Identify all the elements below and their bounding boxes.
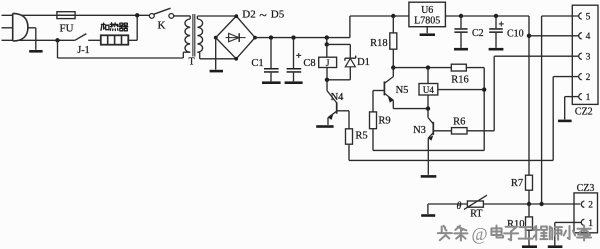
svg-text:U4: U4 bbox=[423, 85, 434, 95]
node: U4 / N5 / N3 dot bbox=[426, 106, 430, 110]
transformer T core bbox=[192, 14, 194, 57]
node: N4 collector dot bbox=[325, 78, 329, 82]
wire: CZ2 pin 1 to ground bbox=[565, 96, 579, 98]
watermark: toutiao author text bbox=[438, 226, 452, 240]
svg-text:T: T bbox=[188, 57, 194, 68]
svg-text:1: 1 bbox=[586, 93, 591, 103]
transistor N5 bbox=[392, 68, 394, 77]
wire: K to transformer primary top bbox=[174, 15, 191, 17]
svg-text:U6: U6 bbox=[421, 5, 433, 16]
wire: CZ2 pin 2 line and down leg to R5 rail bbox=[553, 76, 578, 78]
resistor R7 bbox=[526, 175, 533, 190]
capacitor C10 electrolytic bbox=[494, 14, 498, 18]
svg-text:D2: D2 bbox=[242, 9, 255, 21]
zener diode D1 bbox=[349, 44, 351, 58]
capacitor C1 bbox=[269, 35, 273, 39]
transformer T primary winding bbox=[185, 19, 190, 52]
wire: U4 right pin to feedback node bbox=[438, 89, 484, 91]
svg-text:D1: D1 bbox=[357, 57, 370, 68]
wire: N5 emitter to U4 bottom node bbox=[393, 108, 428, 110]
capacitor C8 electrolytic bbox=[291, 35, 295, 39]
wire: DC+ rail from bridge to corner bbox=[255, 37, 350, 39]
svg-text:@: @ bbox=[471, 224, 487, 244]
transistor N4 bbox=[326, 80, 328, 91]
node: R18 / N5 collector dot bbox=[391, 65, 395, 69]
ground: N4 emitter bbox=[316, 125, 333, 128]
wire: +5V rail from U6 to corner bbox=[445, 15, 529, 17]
svg-text:θ: θ bbox=[457, 201, 462, 212]
wire: CZ2 pin 3 line and down leg to R6 lead bbox=[494, 55, 578, 57]
svg-text:N3: N3 bbox=[413, 125, 426, 136]
wire: heater to node A bbox=[128, 39, 137, 41]
svg-text:R7: R7 bbox=[511, 178, 523, 189]
wire: upper DC rail to U6 input bbox=[350, 15, 409, 17]
diode symbol inside bridge bbox=[226, 37, 246, 39]
svg-text:N5: N5 bbox=[396, 85, 409, 96]
thermistor RT bbox=[467, 201, 483, 207]
bridge rectifier D2~D5 diamond bbox=[216, 16, 255, 59]
node B junction dot on bottom conductor bbox=[55, 38, 59, 42]
heater RL (jia-re-qi) bbox=[101, 35, 129, 44]
svg-text:D5: D5 bbox=[271, 9, 285, 21]
resistor R10 bbox=[528, 204, 530, 217]
svg-text:R5: R5 bbox=[355, 131, 367, 142]
wire: R5 bottom rail to CZ2 pin2 leg bbox=[349, 159, 553, 161]
wire: feedback vertical R16-R6-R9 node bbox=[483, 68, 485, 151]
svg-text:4: 4 bbox=[586, 32, 591, 42]
svg-text:2: 2 bbox=[588, 201, 593, 211]
svg-text:N4: N4 bbox=[331, 92, 345, 103]
svg-text:L7805: L7805 bbox=[414, 16, 440, 27]
ground: plug earth bbox=[29, 50, 42, 53]
svg-text:J: J bbox=[326, 59, 330, 69]
svg-text:R6: R6 bbox=[453, 117, 465, 128]
wire: secondary top to bridge bbox=[196, 16, 198, 19]
transformer T secondary winding bbox=[197, 19, 202, 52]
svg-text:CZ2: CZ2 bbox=[575, 107, 593, 118]
connector CZ2 bbox=[572, 5, 598, 104]
svg-text:C10: C10 bbox=[507, 28, 524, 39]
wire: CZ2 pin 5 line and down leg to RT line bbox=[542, 15, 579, 17]
resistor R18 bbox=[391, 14, 395, 18]
ground: bridge / secondary common bbox=[210, 70, 223, 73]
svg-text:R18: R18 bbox=[370, 38, 388, 49]
svg-text:J-1: J-1 bbox=[77, 45, 89, 56]
node: J / D1 split dot bbox=[325, 42, 329, 46]
svg-text:RT: RT bbox=[470, 209, 482, 220]
svg-text:C8: C8 bbox=[303, 58, 315, 69]
wire: N3 base to R6 bbox=[433, 130, 451, 132]
svg-text:~: ~ bbox=[259, 8, 267, 23]
transistor N3 bbox=[427, 109, 429, 118]
svg-text:C2: C2 bbox=[472, 28, 484, 39]
svg-text:1: 1 bbox=[588, 219, 593, 229]
wire: earth prong of plug bbox=[2, 27, 36, 29]
wire: CZ3 pin 1 to ground bbox=[555, 221, 581, 223]
thermistor RT sense line bbox=[428, 203, 580, 205]
wire: mains bottom conductor from plug to node B bbox=[2, 39, 75, 41]
svg-text:R9: R9 bbox=[378, 116, 390, 127]
node: pin4 branch dot bbox=[527, 34, 531, 38]
svg-text:CZ3: CZ3 bbox=[577, 183, 595, 194]
resistor R9 bbox=[370, 112, 377, 129]
wire: bottom rail to transformer primary bottom bbox=[58, 57, 184, 59]
svg-text:R16: R16 bbox=[451, 74, 469, 85]
ground: RT left end bbox=[427, 204, 429, 214]
ground: N3 emitter bbox=[421, 175, 437, 178]
wire: node B down to bottom rail bbox=[57, 40, 59, 58]
capacitor C2 bbox=[459, 14, 463, 18]
svg-text:FU: FU bbox=[59, 23, 73, 35]
node: RT line dots bbox=[527, 202, 531, 206]
wire: branch to CZ2 pin 4 bbox=[529, 35, 579, 37]
switch K bbox=[149, 14, 154, 19]
fuse FU bbox=[57, 14, 75, 16]
relay coil J bbox=[326, 44, 328, 57]
bridge node dots bbox=[234, 14, 238, 18]
connector CZ3 bbox=[574, 193, 598, 233]
svg-text:K: K bbox=[158, 19, 166, 31]
wire: N5 base to R9 bbox=[373, 90, 384, 92]
svg-text:5: 5 bbox=[586, 12, 591, 22]
ground: R10 bbox=[522, 245, 537, 248]
IC U4 bbox=[426, 65, 430, 69]
relay contact J-1 bbox=[75, 34, 87, 41]
node A junction dot on top conductor bbox=[135, 13, 139, 17]
wire: R9 bottom rail to R16/R6 node leg bbox=[373, 149, 484, 151]
wire: rail corner down to R7 and RT line bbox=[528, 16, 530, 175]
wire: N4 base to R5 bbox=[337, 110, 349, 112]
wire: bias line R18 to R16 bbox=[393, 67, 451, 69]
wire: bridge left node to ground bbox=[215, 38, 217, 70]
ground: U6 common bbox=[426, 27, 428, 34]
node: relay branch dot on rail bbox=[325, 35, 329, 39]
resistor R16 bbox=[451, 64, 466, 71]
wire: mains top conductor from plug to switch K bbox=[2, 14, 150, 16]
resistor R5 bbox=[346, 129, 353, 144]
ground: CZ2 pin1 bbox=[558, 120, 572, 123]
resistor R6 bbox=[452, 128, 468, 134]
ground: CZ3 pin1 bbox=[548, 245, 563, 248]
svg-text:3: 3 bbox=[586, 53, 591, 63]
wire: secondary bottom to bridge bottom node bbox=[197, 51, 199, 53]
svg-text:C1: C1 bbox=[251, 58, 263, 69]
node: U4 feedback dot bbox=[482, 87, 486, 91]
svg-text:2: 2 bbox=[586, 73, 591, 83]
IC U6 L7805 bbox=[409, 2, 446, 27]
AC plug P bbox=[13, 13, 28, 41]
